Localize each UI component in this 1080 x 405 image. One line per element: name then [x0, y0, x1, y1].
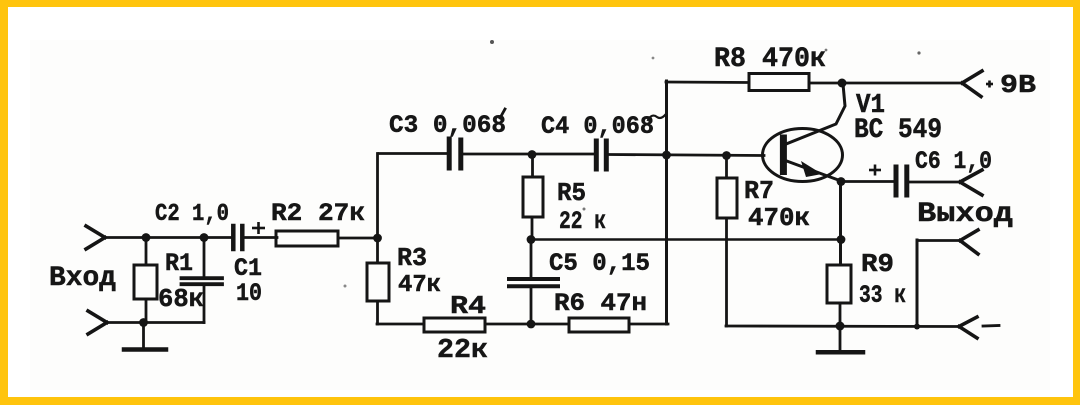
svg-text:C2 1,0: C2 1,0 [155, 201, 229, 228]
svg-text:22к: 22к [437, 336, 488, 366]
svg-text:R1: R1 [165, 249, 193, 278]
svg-text:10: 10 [236, 279, 262, 308]
svg-text:R9: R9 [861, 249, 894, 279]
svg-text:R8 470к: R8 470к [714, 44, 826, 75]
svg-text:C5 0,15: C5 0,15 [549, 249, 650, 278]
svg-text:33 к: 33 к [859, 281, 906, 310]
svg-text:R4: R4 [450, 291, 486, 321]
svg-text:Выход: Выход [917, 199, 1013, 230]
svg-text:C6 1,0: C6 1,0 [915, 147, 992, 176]
svg-text:68к: 68к [158, 284, 204, 314]
svg-text:R5: R5 [557, 178, 586, 208]
svg-text:R2 27к: R2 27к [271, 199, 365, 228]
svg-text:BC 549: BC 549 [854, 115, 942, 146]
svg-text:R3: R3 [397, 243, 427, 273]
svg-text:R7: R7 [744, 176, 774, 206]
svg-text:22 к: 22 к [559, 207, 606, 236]
svg-text:C3 0,068: C3 0,068 [389, 111, 506, 140]
svg-text:470к: 470к [748, 203, 810, 233]
svg-text:R6 47н: R6 47н [554, 289, 647, 318]
svg-text:47к: 47к [398, 272, 441, 299]
svg-text:C4 0,068: C4 0,068 [541, 112, 654, 141]
svg-text:Вход: Вход [49, 263, 116, 294]
svg-text:9В: 9В [1000, 70, 1036, 100]
